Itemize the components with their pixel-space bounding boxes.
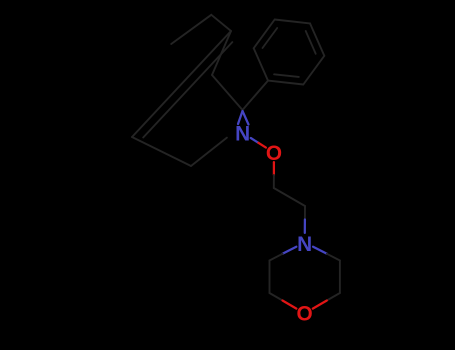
C9=N oxime double bond (blue V) (238, 111, 243, 124)
collapsed ring peak above lens tip (211, 15, 231, 31)
bond C9-phenyl (243, 81, 269, 110)
svg-text:O: O (297, 303, 313, 326)
CH2-CH2 bond (274, 188, 305, 206)
N-O bond (251, 138, 259, 143)
left ring upper edges (212, 75, 243, 110)
svg-text:N: N (297, 233, 312, 256)
CH2-N(morpholine) bond (304, 206, 306, 220)
phenyl inner double bonds (263, 28, 278, 48)
svg-text:O: O (266, 142, 282, 165)
morpholine ring (283, 247, 297, 254)
phenyl ring (right) (254, 48, 268, 80)
O-CH2 bond (273, 162, 275, 175)
left ring lower edges (132, 137, 191, 166)
left ring long edge (with aromatic inner line) (132, 31, 231, 137)
svg-text:N: N (235, 122, 250, 145)
